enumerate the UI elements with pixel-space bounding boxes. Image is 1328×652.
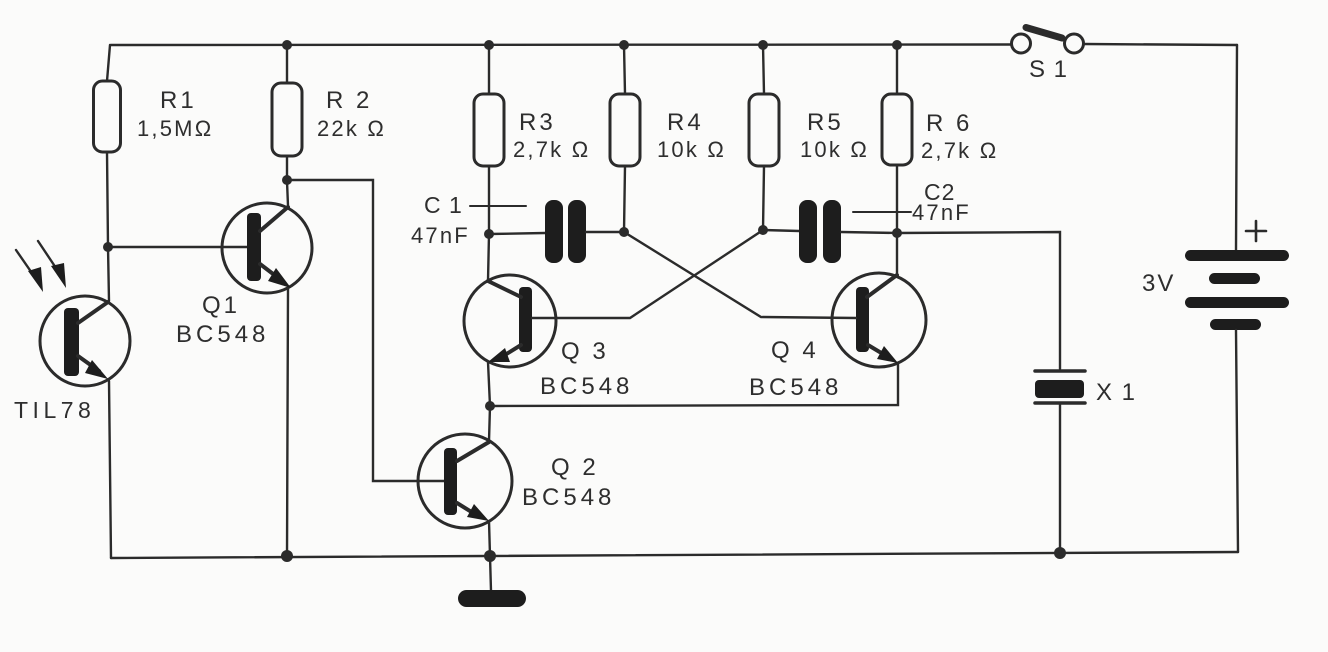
wire node A to Q1 base — [108, 246, 247, 248]
phototransistor TIL78 — [14, 296, 130, 423]
wire right rail down to battery — [1236, 45, 1237, 250]
svg-text:R5: R5 — [807, 109, 844, 136]
ground — [458, 590, 526, 607]
node dot bottom rail Q1 emitter — [281, 550, 293, 562]
svg-text:R 6: R 6 — [926, 110, 972, 137]
wire Q2 emitter to bottom rail — [489, 521, 490, 556]
wire node A to TIL78 collector — [108, 247, 109, 301]
wire X1 to bottom rail — [1059, 404, 1061, 553]
node dot bottom rail X1 — [1054, 547, 1066, 559]
svg-text:C 1: C 1 — [424, 192, 463, 218]
wire to ground — [490, 556, 491, 591]
svg-text:3V: 3V — [1142, 270, 1175, 297]
transistor Q4 BC548 — [749, 273, 926, 401]
wire top rail right segment — [1084, 44, 1237, 45]
svg-text:R1: R1 — [160, 87, 197, 114]
svg-text:Q 4: Q 4 — [771, 337, 819, 364]
capacitor C2 — [763, 179, 971, 263]
svg-text:Q 2: Q 2 — [551, 454, 599, 481]
crystal X1 — [1035, 371, 1137, 406]
wire node G down to Q2 collector — [489, 406, 490, 441]
capacitor C1 — [411, 192, 624, 263]
wire Q1 emitter to bottom rail — [287, 289, 288, 556]
svg-text:47nF: 47nF — [411, 223, 470, 248]
wire Q1 collector up to R2 node — [287, 181, 288, 206]
node E junction dot (R5/C2/Q3 base) — [758, 225, 768, 235]
wire battery to bottom rail — [1236, 330, 1238, 552]
wire Q3 base to node E (diagonal) — [532, 230, 763, 318]
svg-text:Q 3: Q 3 — [561, 338, 609, 365]
wire node F down to Q4 collector — [896, 233, 898, 275]
svg-text:22k Ω: 22k Ω — [317, 116, 386, 141]
resistor R3 — [474, 40, 590, 234]
resistor R4 — [610, 40, 726, 232]
svg-text:BC548: BC548 — [176, 321, 269, 348]
wire Q3 emitter down to node G — [488, 362, 490, 406]
svg-text:X 1: X 1 — [1096, 379, 1137, 406]
wire emitters rail to Q4 — [490, 363, 898, 406]
svg-text:10k Ω: 10k Ω — [657, 137, 726, 162]
switch S1 — [1012, 28, 1084, 84]
resistor R2 — [272, 45, 386, 180]
node dot top rail R2 — [282, 40, 292, 50]
node H junction dot (Q2 emitter / ground) — [484, 550, 496, 562]
wire R1 to node A — [107, 152, 108, 247]
wire Q4 base to node D (diagonal) — [624, 232, 856, 318]
node C junction dot (R3/C1/Q3 collector) — [484, 229, 494, 239]
wire node F to X1 — [897, 232, 1060, 369]
wire bottom rail — [111, 552, 1238, 558]
svg-text:R3: R3 — [519, 109, 556, 136]
node G junction dot (emitters/Q2 collector) — [485, 401, 495, 411]
resistor R5 — [749, 40, 869, 230]
svg-text:47nF: 47nF — [912, 200, 971, 225]
battery B1 3V — [1142, 221, 1289, 330]
svg-text:R4: R4 — [667, 109, 704, 136]
svg-text:TIL78: TIL78 — [14, 397, 95, 423]
node F junction dot (R6/C2/X1/Q4 collector) — [892, 228, 902, 238]
transistor Q2 BC548 — [418, 434, 615, 528]
svg-text:BC548: BC548 — [749, 374, 842, 401]
svg-text:R 2: R 2 — [326, 87, 372, 114]
svg-text:S 1: S 1 — [1029, 56, 1068, 83]
svg-text:Q1: Q1 — [202, 292, 240, 319]
svg-text:1,5MΩ: 1,5MΩ — [137, 116, 213, 141]
node A junction dot — [103, 242, 113, 252]
wire node B to Q2 base — [287, 180, 444, 481]
svg-text:BC548: BC548 — [522, 484, 615, 511]
wire node C down to Q3 collector — [488, 234, 489, 281]
svg-text:BC548: BC548 — [540, 373, 633, 400]
transistor Q1 BC548 — [176, 203, 312, 348]
light arrow 1 — [16, 250, 43, 292]
transistor Q3 BC548 — [464, 275, 633, 400]
node B junction dot (R2/Q1 collector) — [282, 175, 292, 185]
wire left branch top — [107, 45, 110, 81]
light arrow 2 — [38, 241, 66, 288]
wire TIL78 emitter to bottom rail — [109, 381, 111, 558]
resistor R6 — [882, 40, 998, 233]
svg-text:2,7k Ω: 2,7k Ω — [513, 137, 590, 162]
wire top rail left segment — [111, 43, 1011, 46]
svg-text:2,7k Ω: 2,7k Ω — [921, 138, 998, 163]
node D junction dot (R4/C1/Q4 base) — [619, 227, 629, 237]
svg-text:10k Ω: 10k Ω — [800, 137, 869, 162]
resistor R1 — [94, 81, 214, 152]
